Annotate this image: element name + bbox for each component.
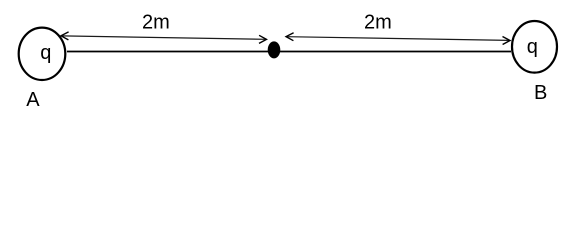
- svg-text:B: B: [534, 82, 547, 104]
- svg-text:2m: 2m: [142, 12, 170, 34]
- svg-text:q: q: [40, 42, 51, 64]
- svg-text:2m: 2m: [364, 12, 392, 34]
- svg-text:q: q: [527, 36, 538, 58]
- svg-text:A: A: [26, 89, 40, 111]
